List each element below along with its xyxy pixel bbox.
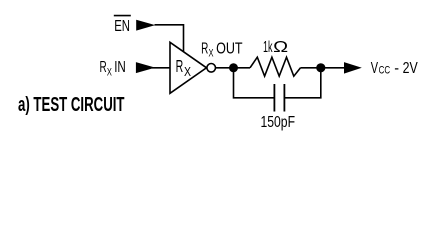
svg-text:R: R <box>201 40 208 57</box>
svg-text:CC: CC <box>379 64 391 76</box>
svg-text:2V: 2V <box>403 60 418 77</box>
svg-text:R: R <box>100 59 107 76</box>
svg-text:150pF: 150pF <box>261 114 296 131</box>
svg-text:X: X <box>209 47 214 59</box>
svg-text:R: R <box>176 56 184 76</box>
svg-text:EN: EN <box>114 18 130 35</box>
svg-text:X: X <box>107 67 112 79</box>
svg-text:a) TEST CIRCUIT: a) TEST CIRCUIT <box>18 94 125 116</box>
svg-text:X: X <box>184 65 192 79</box>
svg-text:-: - <box>394 60 399 77</box>
svg-text:IN: IN <box>114 59 126 76</box>
svg-text:1k: 1k <box>263 39 273 56</box>
svg-text:Ω: Ω <box>273 39 288 56</box>
svg-text:OUT: OUT <box>216 40 243 57</box>
svg-text:V: V <box>371 60 379 77</box>
